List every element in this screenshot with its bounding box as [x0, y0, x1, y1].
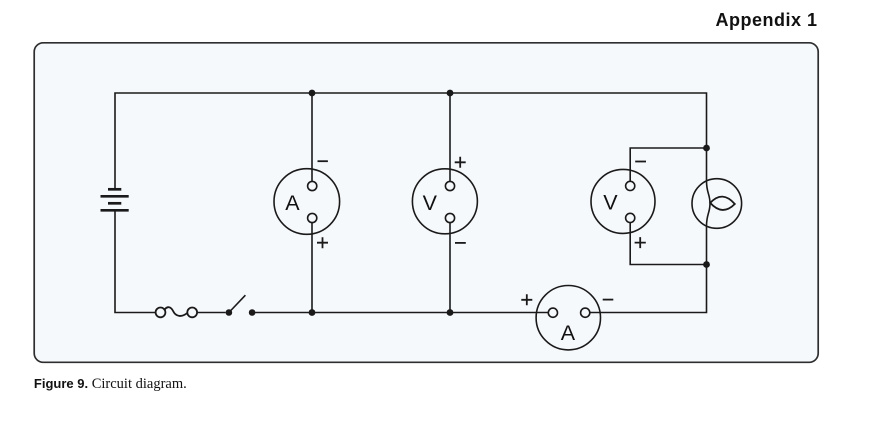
wire: A1 bottom branch — [311, 223, 313, 313]
junction node: bottom bus / V1 — [447, 309, 454, 316]
wire: switch to ammeter A2 left terminal — [252, 312, 548, 314]
switch S1 (open) — [226, 295, 256, 316]
fuse F1 (terminal-wave-terminal) — [156, 307, 198, 317]
svg-text:V: V — [603, 191, 618, 215]
wire: battery bottom to fuse — [115, 210, 156, 313]
svg-text:A: A — [561, 321, 576, 345]
svg-text:Figure 9. Circuit diagram.: Figure 9. Circuit diagram. — [34, 376, 187, 392]
ammeter A1 — [274, 161, 340, 248]
svg-text:Appendix 1: Appendix 1 — [716, 10, 818, 30]
junction node: top bus / A1 — [309, 90, 316, 97]
wire: V1 top branch — [449, 93, 451, 182]
battery B1 — [101, 189, 129, 210]
voltmeter V1 — [412, 157, 477, 243]
lamp L1 — [692, 179, 742, 229]
ammeter A2 — [521, 286, 613, 350]
enclosure panel — [34, 43, 818, 363]
wire: V2 top lead — [630, 148, 706, 181]
wire: V2 bottom lead — [630, 222, 706, 264]
voltmeter V2 — [591, 162, 655, 249]
svg-text:A: A — [285, 191, 300, 215]
junction node: top bus / V1 — [447, 90, 454, 97]
wire: V1 bottom branch — [449, 223, 451, 313]
junction node: bottom bus / A1 — [309, 309, 316, 316]
junction node: right bus / V2 bottom — [703, 261, 710, 268]
wire: left branch, top bus, right branch upper — [115, 93, 707, 190]
svg-text:V: V — [423, 191, 438, 215]
junction node: right bus / V2 top — [703, 145, 710, 152]
wire: right bus lower to A2 right terminal — [590, 226, 707, 313]
wire: fuse to switch — [197, 312, 226, 314]
wire: A1 top branch — [311, 93, 313, 182]
